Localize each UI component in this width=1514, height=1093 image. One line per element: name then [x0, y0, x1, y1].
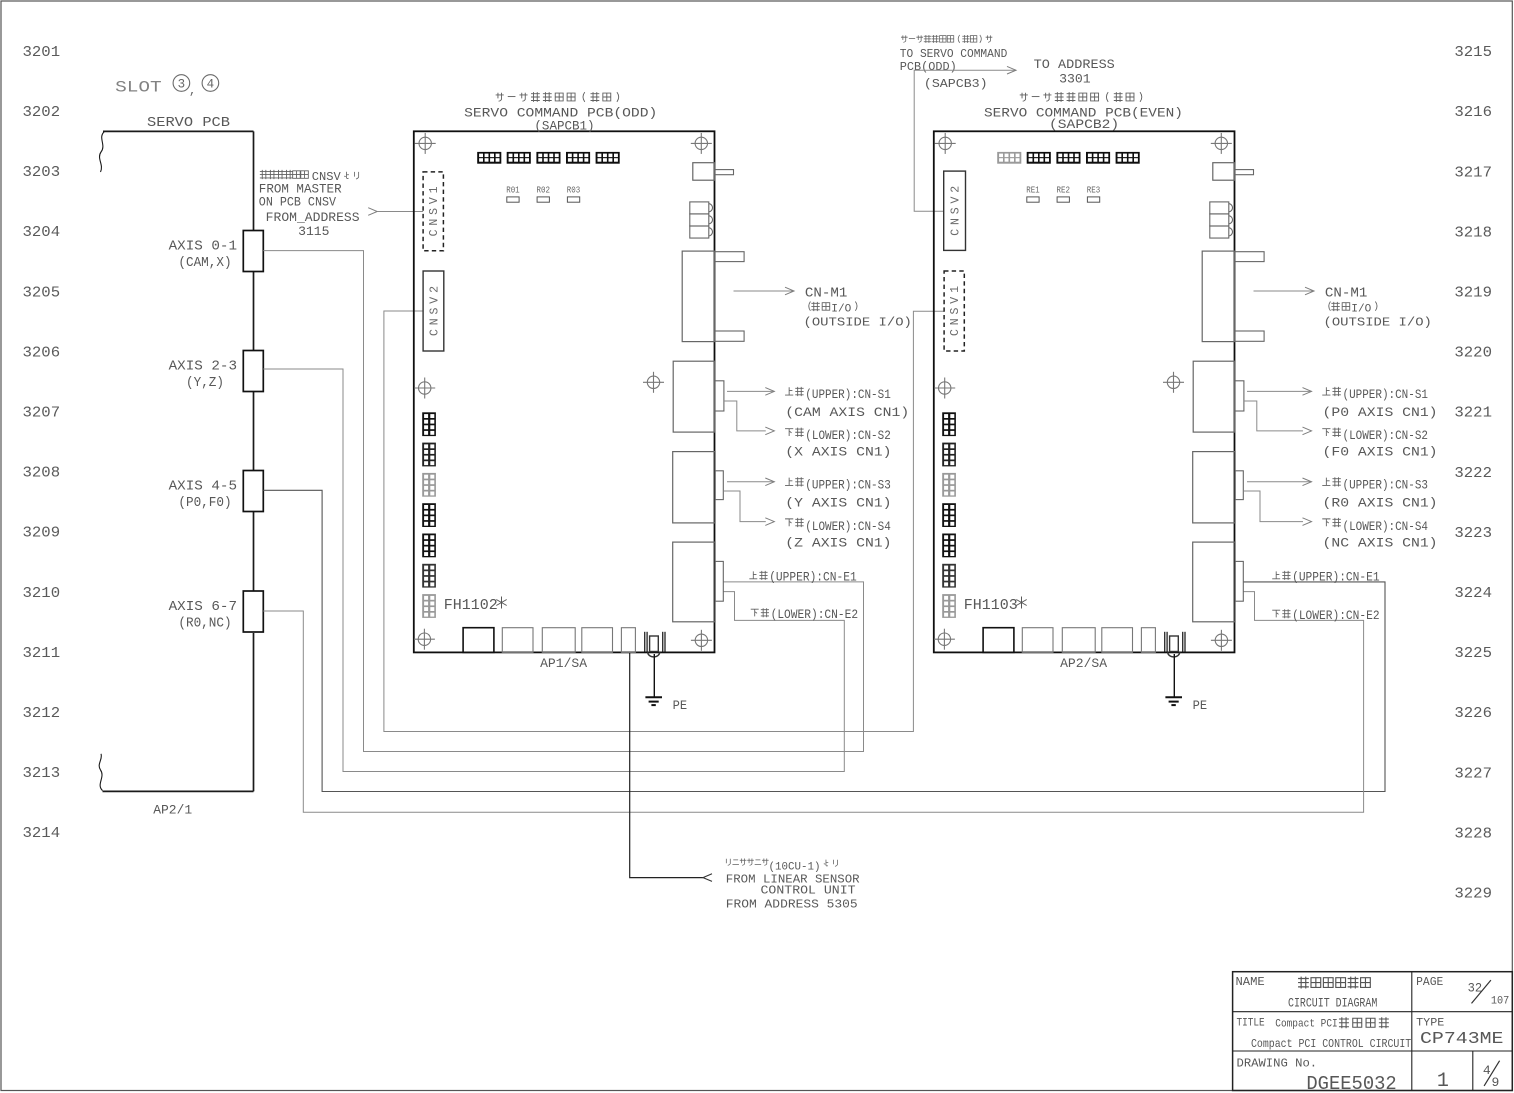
wire net AXIS2-3 to SAPCB1 CN-E2 [263, 369, 844, 772]
svg-text:(R0,NC): (R0,NC) [178, 617, 231, 632]
svg-text:I/O: I/O [1351, 303, 1371, 315]
resistor RE1 SAPCB2 [1026, 185, 1040, 203]
title block TYPE cell CP743ME [1416, 1018, 1503, 1050]
svg-text:107: 107 [1491, 995, 1509, 1007]
label AXIS 0-1 (CAM,X) [169, 239, 237, 271]
svg-text:3210: 3210 [23, 586, 61, 602]
DIP block column SAPCB2 #6 [942, 564, 956, 588]
svg-text:Compact PCI CONTROL CIRCUIT: Compact PCI CONTROL CIRCUIT [1251, 1037, 1411, 1051]
connector bottom B5 SAPCB2 [1141, 628, 1155, 653]
svg-text:3225: 3225 [1454, 646, 1492, 662]
label AXIS 2-3 (Y,Z) [169, 359, 237, 391]
ground PE SAPCB2 [1165, 654, 1182, 705]
connector 3-pin stack SAPCB1 [690, 202, 713, 238]
svg-text:(SAPCB3): (SAPCB3) [924, 78, 988, 91]
label CN-S1 (P0 AXIS CN1) [1322, 387, 1437, 420]
title block PAGE cell 32/107 [1416, 975, 1509, 1007]
svg-text:PE: PE [673, 698, 688, 713]
connector small top right SAPCB1 [693, 163, 734, 181]
label CN-E1 SAPCB1 [749, 571, 856, 585]
svg-text:CIRCUIT DIAGRAM: CIRCUIT DIAGRAM [1288, 995, 1377, 1010]
ground PE SAPCB1 [645, 654, 662, 705]
DIP block column SAPCB1 #1 [422, 412, 436, 436]
DIP block column SAPCB1 #3 [422, 473, 436, 497]
wire net AXIS4-5 to SAPCB2 CN-E1 [263, 490, 1385, 791]
wire CN-S2 step SAPCB1 [724, 401, 774, 435]
DIP block column SAPCB2 #7 [942, 594, 956, 618]
connector CNSV1 (dashed) SAPCB1 [423, 172, 443, 251]
svg-text:CN-M1: CN-M1 [805, 287, 848, 302]
svg-text:(Z AXIS CN1): (Z AXIS CN1) [785, 536, 891, 550]
resistor RE2 SAPCB2 [1057, 185, 1071, 203]
svg-text:3216: 3216 [1454, 105, 1492, 121]
DIP block column SAPCB1 #7 [422, 594, 436, 618]
svg-text:FH1102: FH1102 [444, 598, 498, 614]
connector AXIS 0-1 on SERVO PCB bus [243, 231, 263, 272]
connector CN-S3/CN-S4 SAPCB1 [673, 452, 724, 523]
label FH1102* [444, 597, 507, 614]
header SAPCB1 title [464, 92, 657, 133]
connector 3-pin stack SAPCB2 [1210, 202, 1233, 238]
svg-text:TO ADDRESS: TO ADDRESS [1034, 57, 1115, 72]
arrow CN-S3 SAPCB1 [727, 478, 774, 486]
connector AXIS 2-3 on SERVO PCB bus [243, 351, 263, 392]
DIP switch block S3 SAPCB1 [536, 152, 560, 164]
heading SLOT 3,4 [115, 75, 219, 98]
svg-text:3228: 3228 [1454, 826, 1492, 842]
svg-text:R02: R02 [537, 185, 551, 196]
wire net CNSV link (SAPCB1 CNSV2 to SAPCB2 CNSV1) [384, 311, 944, 732]
svg-text:3211: 3211 [23, 646, 61, 662]
svg-text:(OUTSIDE I/O): (OUTSIDE I/O) [1324, 316, 1432, 330]
connector CN-E1/CN-E2 SAPCB1 [673, 542, 724, 622]
DIP switch block S2 SAPCB2 [1027, 152, 1051, 164]
label FH1103* [964, 597, 1027, 614]
wire net AXIS0-1 to SAPCB1 CN-E1 [263, 251, 863, 752]
svg-text:PAGE: PAGE [1416, 975, 1443, 989]
svg-text:3213: 3213 [23, 766, 61, 782]
connector CN-M1 SAPCB1 [682, 251, 744, 342]
DIP switch block S1 SAPCB2 [997, 152, 1021, 164]
svg-text:ON PCB CNSV: ON PCB CNSV [259, 195, 337, 209]
connector CNSV2 SAPCB1 [423, 271, 444, 351]
connector bottom B3 SAPCB2 [1062, 628, 1095, 653]
left row labels 3201-3214 [23, 45, 61, 842]
svg-text:(SAPCB2): (SAPCB2) [1049, 117, 1119, 132]
break squiggle bottom left [99, 754, 102, 791]
svg-text:TO SERVO COMMAND: TO SERVO COMMAND [900, 48, 1008, 61]
svg-text:3218: 3218 [1454, 225, 1492, 241]
svg-text:3224: 3224 [1454, 586, 1492, 602]
svg-text:(Y AXIS CN1): (Y AXIS CN1) [785, 496, 891, 510]
svg-text:(LOWER):CN-E2: (LOWER):CN-E2 [1292, 609, 1380, 623]
svg-text:3202: 3202 [23, 105, 61, 121]
connector CN-E1/CN-E2 SAPCB2 [1193, 542, 1244, 622]
screw hole SAPCB2 #1 [935, 133, 956, 154]
wire AP2/1 bottom horizontal [103, 790, 254, 792]
svg-text:NAME: NAME [1236, 975, 1265, 989]
title block TITLE cell [1237, 1017, 1412, 1051]
resistor R01 SAPCB1 [506, 185, 520, 203]
svg-text:3203: 3203 [23, 165, 61, 181]
screw hole SAPCB2 #3 [934, 378, 955, 399]
svg-text:AP2/1: AP2/1 [153, 803, 192, 818]
connector AXIS 4-5 on SERVO PCB bus [243, 471, 263, 512]
arrow CN-S3 SAPCB2 [1247, 478, 1312, 486]
svg-text:(SAPCB1): (SAPCB1) [534, 119, 594, 134]
screw hole SAPCB1 #6 [691, 630, 712, 651]
svg-text:SERVO PCB: SERVO PCB [147, 115, 230, 131]
label CN-S2 (X AXIS CN1) [785, 428, 891, 460]
svg-text:CP743ME: CP743ME [1420, 1030, 1504, 1049]
svg-text:(P0 AXIS CN1): (P0 AXIS CN1) [1323, 406, 1438, 420]
screw hole SAPCB2 #5 [934, 629, 955, 650]
connector bottom B2 SAPCB1 [502, 628, 533, 653]
svg-text:AP2/SA: AP2/SA [1060, 656, 1107, 671]
svg-text:AXIS 0-1: AXIS 0-1 [169, 239, 237, 254]
svg-text:(UPPER):CN-S1: (UPPER):CN-S1 [1343, 388, 1429, 402]
svg-text:9: 9 [1492, 1075, 1500, 1090]
label FROM LINEAR SENSOR CONTROL UNIT FROM ADDRESS 5305 [726, 858, 860, 911]
label CN-S4 (NC AXIS CN1) [1322, 518, 1437, 550]
svg-text:1: 1 [1437, 1070, 1449, 1093]
title block DRAWING No cell [1237, 1057, 1397, 1093]
svg-text:I/O: I/O [831, 303, 851, 315]
arrow into SAPCB1 CNSV1 from master [368, 208, 423, 216]
DIP switch block S1 SAPCB1 [477, 152, 501, 164]
DIP switch block S4 SAPCB2 [1086, 152, 1110, 164]
PCB outline SAPCB1 [414, 131, 715, 652]
DIP switch block S4 SAPCB1 [566, 152, 590, 164]
DIP switch block S5 SAPCB2 [1116, 152, 1140, 164]
svg-text:(UPPER):CN-E1: (UPPER):CN-E1 [769, 571, 857, 585]
svg-text:FROM ADDRESS 5305: FROM ADDRESS 5305 [726, 898, 858, 911]
svg-text:(NC AXIS CN1): (NC AXIS CN1) [1323, 536, 1438, 550]
svg-text:4: 4 [207, 78, 215, 92]
label CN-S3 (Y AXIS CN1) [785, 477, 891, 510]
svg-text:AP1/SA: AP1/SA [540, 656, 587, 671]
wire SERVO PCB bus vertical segments [253, 131, 255, 791]
PCB outline SAPCB2 [934, 131, 1235, 652]
label TO SERVO COMMAND PCB(ODD) (SAPCB3) [900, 35, 1008, 91]
svg-text:(LOWER):CN-S4: (LOWER):CN-S4 [805, 520, 891, 534]
svg-text:RE2: RE2 [1057, 185, 1071, 196]
svg-text:3229: 3229 [1454, 887, 1492, 903]
label CN-E2 SAPCB2 [1272, 609, 1379, 623]
label CN-S2 (F0 AXIS CN1) [1322, 428, 1437, 460]
svg-text:3209: 3209 [23, 526, 61, 542]
connector AXIS 6-7 on SERVO PCB bus [243, 591, 263, 632]
svg-text:3205: 3205 [23, 285, 61, 301]
DIP block column SAPCB1 #6 [422, 564, 436, 588]
label CN-S4 (Z AXIS CN1) [785, 518, 891, 550]
wire SERVO PCB bus top horizontal [103, 130, 254, 132]
DIP block column SAPCB2 #4 [942, 503, 956, 527]
label CN-M1 OUTSIDE I/O SAPCB1 [804, 287, 912, 330]
svg-text:AXIS 2-3: AXIS 2-3 [169, 359, 237, 374]
svg-text:Compact PCI: Compact PCI [1275, 1019, 1337, 1031]
label CN-E1 SAPCB2 [1272, 571, 1379, 585]
DIP block column SAPCB1 #2 [422, 443, 436, 467]
svg-text:3223: 3223 [1454, 526, 1492, 542]
label CN-M1 OUTSIDE I/O SAPCB2 [1324, 287, 1432, 330]
title block frame [1233, 972, 1513, 1091]
label FROM MASTER ON PCB CNSV FROM ADDRESS 3115 [259, 170, 360, 239]
svg-text:(F0 AXIS CN1): (F0 AXIS CN1) [1323, 446, 1438, 460]
svg-text:(UPPER):CN-S3: (UPPER):CN-S3 [805, 479, 891, 493]
title block sheet 4/9 [1483, 1061, 1500, 1090]
wire CN-S4 step SAPCB1 [724, 491, 774, 525]
resistor R02 SAPCB1 [537, 185, 551, 203]
svg-text:3207: 3207 [23, 406, 61, 422]
screw hole SAPCB1 #3 [414, 378, 435, 399]
label CN-S3 (R0 AXIS CN1) [1322, 477, 1437, 510]
DIP switch block S5 SAPCB1 [596, 152, 620, 164]
connector CN-M1 SAPCB2 [1202, 251, 1264, 342]
wire CN-S2 step SAPCB2 [1244, 401, 1312, 435]
wire CN-S4 step SAPCB2 [1244, 491, 1312, 525]
screw hole SAPCB2 #6 [1211, 630, 1232, 651]
svg-text:SLOT: SLOT [115, 78, 162, 96]
svg-text:3301: 3301 [1059, 72, 1091, 87]
DIP block column SAPCB1 #4 [422, 503, 436, 527]
svg-text:(LOWER):CN-S2: (LOWER):CN-S2 [805, 429, 891, 443]
svg-text:(LOWER):CN-E2: (LOWER):CN-E2 [771, 608, 859, 622]
DIP switch block S3 SAPCB2 [1056, 152, 1080, 164]
screw hole SAPCB1 #1 [415, 133, 436, 154]
svg-text:3222: 3222 [1454, 466, 1492, 482]
arrow CN-S1 SAPCB1 [727, 388, 774, 396]
break squiggle top left [100, 131, 105, 172]
svg-text:DGEE5032: DGEE5032 [1306, 1073, 1396, 1093]
svg-text:PE: PE [1193, 698, 1208, 713]
svg-text:AXIS 4-5: AXIS 4-5 [169, 479, 237, 494]
connector CN-S1/CN-S2 SAPCB2 [1193, 361, 1244, 432]
wire net AXIS6-7 to SAPCB2 CN-E2 [263, 592, 1363, 813]
svg-text:(P0,F0): (P0,F0) [178, 496, 231, 511]
connector CN-S1/CN-S2 SAPCB1 [673, 361, 724, 432]
arrow CN-S1 SAPCB2 [1247, 388, 1312, 396]
connector PE stud SAPCB1 [645, 632, 665, 657]
svg-text:TYPE: TYPE [1416, 1018, 1445, 1030]
svg-text:(Y,Z): (Y,Z) [186, 376, 224, 391]
resistor RE3 SAPCB2 [1087, 185, 1101, 203]
svg-text:3219: 3219 [1454, 286, 1492, 302]
svg-text:FH1103: FH1103 [964, 598, 1018, 614]
svg-text:R01: R01 [506, 185, 520, 196]
connector bottom B1 SAPCB2 [983, 628, 1014, 653]
wire SAPCB2 CNSV2 to SAPCB3 with arrow [914, 66, 1016, 211]
svg-text:3115: 3115 [298, 225, 329, 239]
svg-text:3208: 3208 [23, 466, 61, 482]
svg-text:3220: 3220 [1454, 346, 1492, 362]
screw hole SAPCB1 #2 [691, 133, 712, 154]
svg-text:3215: 3215 [1454, 45, 1492, 61]
svg-text:3226: 3226 [1454, 706, 1492, 722]
connector bottom B4 SAPCB1 [582, 628, 613, 653]
svg-text:DRAWING No.: DRAWING No. [1237, 1057, 1318, 1071]
connector bottom B1 SAPCB1 [463, 628, 494, 653]
svg-text:(X AXIS CN1): (X AXIS CN1) [785, 446, 891, 460]
svg-text:CONTROL UNIT: CONTROL UNIT [761, 885, 856, 898]
svg-text:TITLE: TITLE [1237, 1018, 1266, 1030]
svg-text:(CAM,X): (CAM,X) [178, 256, 231, 271]
connector CN-S3/CN-S4 SAPCB2 [1193, 452, 1244, 523]
svg-text:3214: 3214 [23, 826, 61, 842]
svg-text:RE1: RE1 [1026, 185, 1040, 196]
DIP block column SAPCB2 #1 [942, 412, 956, 436]
title block NAME cell [1236, 975, 1378, 1010]
svg-text:3201: 3201 [23, 45, 61, 61]
label AXIS 6-7 (R0,NC) [169, 600, 237, 632]
svg-text:(CAM AXIS CN1): (CAM AXIS CN1) [785, 406, 909, 420]
connector PE stud SAPCB2 [1165, 632, 1185, 657]
svg-text:(UPPER):CN-E1: (UPPER):CN-E1 [1292, 571, 1380, 585]
svg-text:3217: 3217 [1454, 165, 1492, 181]
label CN-S1 (CAM AXIS CN1) [785, 387, 909, 420]
DIP block column SAPCB2 #5 [942, 534, 956, 558]
svg-text:PCB(ODD): PCB(ODD) [900, 61, 957, 74]
wire from linear sensor control unit to SAPCB1 bottom connector [630, 652, 712, 881]
svg-text:(LOWER):CN-S4: (LOWER):CN-S4 [1343, 520, 1429, 534]
svg-text:3227: 3227 [1454, 766, 1492, 782]
DIP block column SAPCB2 #3 [942, 473, 956, 497]
DIP switch block S2 SAPCB1 [507, 152, 531, 164]
screw hole SAPCB2 #2 [1211, 133, 1232, 154]
right row labels 3215-3229 [1454, 45, 1492, 902]
svg-text:(LOWER):CN-S2: (LOWER):CN-S2 [1343, 429, 1429, 443]
label TO ADDRESS 3301 [1034, 57, 1115, 87]
header SAPCB2 title [984, 92, 1183, 132]
connector small top right SAPCB2 [1213, 163, 1254, 181]
connector bottom B4 SAPCB2 [1102, 628, 1133, 653]
svg-text:3: 3 [178, 78, 186, 92]
svg-text:(10CU-1): (10CU-1) [769, 862, 821, 874]
connector CNSV2 SAPCB2 [944, 171, 966, 250]
arrow CN-M1 SAPCB2 [1254, 287, 1315, 295]
svg-text:FROM_ADDRESS: FROM_ADDRESS [266, 211, 360, 225]
svg-text:FROM MASTER: FROM MASTER [259, 182, 342, 196]
screw hole SAPCB2 #4 [1163, 372, 1184, 393]
connector bottom B5 SAPCB1 [621, 628, 635, 653]
DIP block column SAPCB2 #2 [942, 443, 956, 467]
svg-text:3204: 3204 [23, 225, 61, 241]
screw hole SAPCB1 #4 [643, 372, 664, 393]
label CN-E2 SAPCB1 [751, 608, 858, 622]
svg-text:CN-M1: CN-M1 [1325, 287, 1368, 302]
DIP block column SAPCB1 #5 [422, 534, 436, 558]
arrow CN-M1 SAPCB1 [734, 287, 795, 295]
svg-text:,: , [189, 84, 196, 98]
svg-text:R03: R03 [567, 185, 581, 196]
svg-text:(R0 AXIS CN1): (R0 AXIS CN1) [1323, 496, 1438, 510]
connector CNSV1 (dashed) SAPCB2 [944, 271, 964, 351]
screw hole SAPCB1 #5 [414, 629, 435, 650]
svg-text:3221: 3221 [1454, 406, 1492, 422]
svg-text:(UPPER):CN-S1: (UPPER):CN-S1 [805, 388, 891, 402]
svg-text:3206: 3206 [23, 345, 61, 361]
svg-text:3212: 3212 [23, 706, 61, 722]
connector bottom B3 SAPCB1 [542, 628, 575, 653]
resistor R03 SAPCB1 [567, 185, 581, 203]
svg-text:AXIS 6-7: AXIS 6-7 [169, 600, 237, 615]
connector bottom B2 SAPCB2 [1022, 628, 1053, 653]
svg-text:RE3: RE3 [1087, 185, 1101, 196]
svg-text:(OUTSIDE I/O): (OUTSIDE I/O) [804, 316, 912, 330]
label AXIS 4-5 (P0,F0) [169, 479, 237, 511]
svg-text:(UPPER):CN-S3: (UPPER):CN-S3 [1343, 479, 1429, 493]
